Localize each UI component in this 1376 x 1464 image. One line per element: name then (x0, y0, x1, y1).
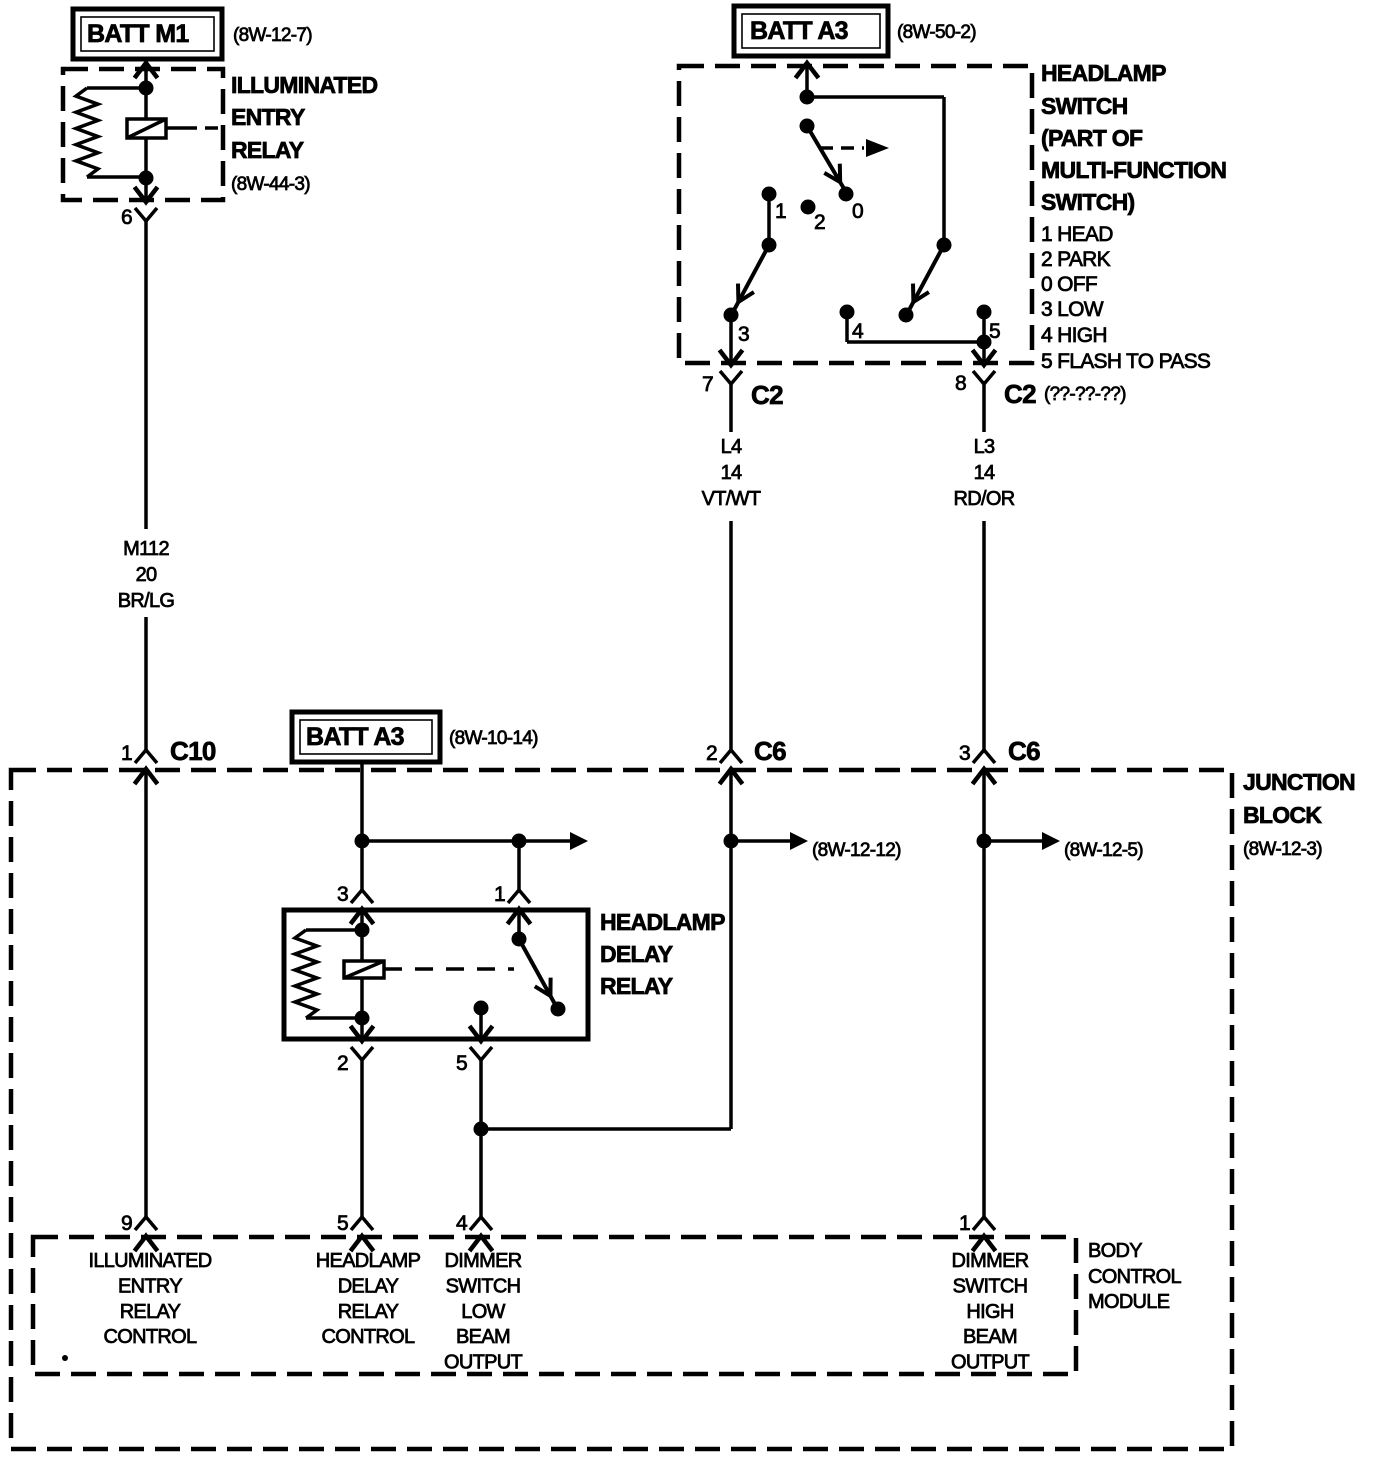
svg-text:1: 1 (775, 200, 786, 223)
svg-text:C2: C2 (1004, 379, 1036, 409)
svg-text:5 FLASH TO PASS: 5 FLASH TO PASS (1041, 350, 1211, 373)
svg-text:HEADLAMP: HEADLAMP (316, 1250, 421, 1272)
svg-text:BEAM: BEAM (963, 1326, 1017, 1348)
svg-text:(8W-44-3): (8W-44-3) (231, 174, 310, 195)
svg-text:HIGH: HIGH (966, 1301, 1013, 1323)
svg-text:1 HEAD: 1 HEAD (1041, 223, 1113, 246)
svg-text:4 HIGH: 4 HIGH (1041, 324, 1107, 347)
svg-text:BATT A3: BATT A3 (750, 17, 848, 45)
svg-text:C6: C6 (754, 736, 786, 766)
svg-text:(8W-50-2): (8W-50-2) (897, 22, 976, 43)
svg-text:RELAY: RELAY (231, 137, 304, 163)
svg-text:2: 2 (706, 742, 717, 765)
svg-text:CONTROL: CONTROL (1088, 1266, 1181, 1288)
svg-text:SWITCH: SWITCH (446, 1275, 521, 1297)
svg-text:BATT M1: BATT M1 (87, 20, 189, 48)
svg-text:DELAY: DELAY (338, 1275, 399, 1297)
svg-text:7: 7 (702, 373, 713, 396)
svg-text:5: 5 (456, 1052, 467, 1075)
svg-text:5: 5 (989, 320, 1000, 343)
svg-text:3: 3 (959, 742, 970, 765)
svg-text:L3: L3 (974, 436, 995, 458)
svg-text:SWITCH: SWITCH (1041, 93, 1128, 119)
svg-text:CONTROL: CONTROL (322, 1326, 415, 1348)
svg-text:RELAY: RELAY (120, 1301, 181, 1323)
svg-text:0 OFF: 0 OFF (1041, 273, 1097, 296)
svg-text:(8W-12-5): (8W-12-5) (1064, 840, 1143, 861)
svg-text:ILLUMINATED: ILLUMINATED (88, 1250, 211, 1272)
svg-text:ILLUMINATED: ILLUMINATED (231, 72, 378, 98)
svg-text:ENTRY: ENTRY (231, 104, 305, 130)
svg-text:BODY: BODY (1088, 1240, 1142, 1262)
svg-text:(8W-10-14): (8W-10-14) (449, 728, 538, 749)
svg-text:BEAM: BEAM (456, 1326, 510, 1348)
svg-text:LOW: LOW (461, 1301, 505, 1323)
svg-text:SWITCH): SWITCH) (1041, 189, 1135, 215)
svg-text:8: 8 (955, 372, 966, 395)
svg-text:SWITCH: SWITCH (953, 1275, 1028, 1297)
svg-text:9: 9 (121, 1212, 132, 1235)
svg-text:3: 3 (738, 323, 749, 346)
svg-text:VT/WT: VT/WT (702, 488, 761, 510)
svg-text:6: 6 (121, 206, 132, 229)
svg-text:2: 2 (814, 211, 825, 234)
svg-text:C10: C10 (170, 736, 216, 766)
svg-text:RELAY: RELAY (338, 1301, 399, 1323)
svg-text:(8W-12-7): (8W-12-7) (233, 25, 312, 46)
svg-text:(??-??-??): (??-??-??) (1044, 384, 1126, 405)
svg-text:BLOCK: BLOCK (1243, 802, 1322, 828)
svg-text:1: 1 (959, 1212, 970, 1235)
svg-text:HEADLAMP: HEADLAMP (1041, 60, 1166, 86)
svg-text:MODULE: MODULE (1088, 1291, 1170, 1313)
svg-text:MULTI-FUNCTION: MULTI-FUNCTION (1041, 157, 1226, 183)
svg-text:DIMMER: DIMMER (445, 1250, 522, 1272)
svg-text:14: 14 (721, 462, 742, 484)
svg-text:OUTPUT: OUTPUT (444, 1352, 523, 1374)
svg-text:CONTROL: CONTROL (104, 1326, 197, 1348)
svg-text:0: 0 (852, 200, 863, 223)
svg-text:RELAY: RELAY (600, 973, 673, 999)
svg-text:C6: C6 (1008, 736, 1040, 766)
svg-text:1: 1 (494, 883, 505, 906)
svg-text:C2: C2 (751, 380, 783, 410)
svg-text:2 PARK: 2 PARK (1041, 248, 1111, 271)
svg-text:(8W-12-12): (8W-12-12) (812, 840, 901, 861)
svg-text:ENTRY: ENTRY (118, 1275, 182, 1297)
svg-text:20: 20 (136, 564, 157, 586)
svg-text:1: 1 (121, 742, 132, 765)
svg-text:14: 14 (974, 462, 995, 484)
svg-text:2: 2 (337, 1052, 348, 1075)
svg-text:DIMMER: DIMMER (952, 1250, 1029, 1272)
svg-text:3 LOW: 3 LOW (1041, 298, 1104, 321)
svg-text:JUNCTION: JUNCTION (1243, 769, 1355, 795)
svg-text:RD/OR: RD/OR (954, 488, 1015, 510)
svg-text:L4: L4 (721, 436, 742, 458)
svg-text:DELAY: DELAY (600, 941, 673, 967)
svg-text:3: 3 (337, 883, 348, 906)
svg-text:(8W-12-3): (8W-12-3) (1243, 839, 1322, 860)
svg-text:4: 4 (456, 1212, 468, 1235)
svg-text:BATT A3: BATT A3 (306, 723, 404, 751)
svg-text:4: 4 (852, 320, 864, 343)
svg-text:5: 5 (337, 1212, 348, 1235)
svg-text:BR/LG: BR/LG (118, 590, 175, 612)
svg-text:(PART OF: (PART OF (1041, 125, 1143, 151)
svg-text:M112: M112 (123, 538, 169, 560)
svg-text:HEADLAMP: HEADLAMP (600, 909, 725, 935)
svg-text:OUTPUT: OUTPUT (951, 1352, 1030, 1374)
